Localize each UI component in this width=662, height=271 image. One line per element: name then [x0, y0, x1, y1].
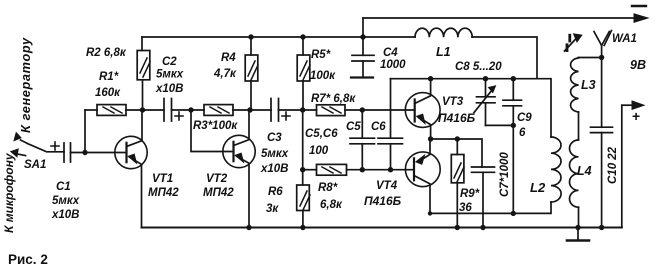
resistor R6: [297, 185, 310, 211]
ground bar under C4: [351, 76, 373, 78]
svg-text:VT4: VT4: [376, 180, 398, 192]
inductor L4: [570, 140, 579, 207]
svg-text:C8 5...20: C8 5...20: [455, 61, 502, 73]
svg-text:L1: L1: [436, 45, 451, 59]
inductor L2: [551, 137, 561, 202]
svg-text:C2: C2: [162, 56, 177, 68]
wire emitter line y139: [431, 139, 482, 167]
svg-text:L2: L2: [530, 180, 546, 195]
svg-text:R6: R6: [268, 186, 283, 198]
svg-text:МП42: МП42: [203, 187, 234, 199]
junction dots: [248, 34, 253, 39]
wire tank bottom line: [486, 125, 514, 213]
inductor L3: [571, 58, 579, 113]
svg-text:SA1: SA1: [24, 159, 46, 171]
capacitor C9: [512, 79, 514, 101]
wire mid supply rail left part: [142, 36, 415, 38]
wire antenna feed top: [579, 57, 602, 59]
svg-text:C7*1000: C7*1000: [499, 152, 511, 197]
capacitor C4: [362, 37, 364, 55]
svg-text:R3*100к: R3*100к: [193, 120, 238, 132]
svg-text:VT1: VT1: [152, 173, 173, 185]
capacitor C3: [271, 99, 279, 122]
svg-text:х10В: х10В: [155, 83, 184, 95]
svg-text:5мкх: 5мкх: [261, 148, 289, 160]
svg-text:П416Б: П416Б: [438, 111, 476, 125]
transistor VT1: [115, 136, 147, 168]
svg-text:R5*: R5*: [311, 49, 331, 61]
capacitor C7: [472, 166, 495, 168]
svg-text:5мкх: 5мкх: [52, 195, 80, 207]
wire R7 to VT3 base: [345, 109, 415, 111]
wire bias node vertical x302.7: [302, 110, 304, 185]
svg-text:C1: C1: [56, 181, 71, 193]
svg-text:х10В: х10В: [260, 163, 289, 175]
svg-text:R7* 6,8к: R7* 6,8к: [311, 93, 356, 105]
svg-text:6: 6: [519, 127, 526, 139]
svg-text:П416Б: П416Б: [364, 194, 402, 208]
svg-text:VT2: VT2: [206, 173, 228, 185]
capacitor C5: [361, 110, 363, 138]
wire R3 to C3: [233, 109, 271, 111]
capacitor C2: [164, 99, 172, 122]
wire C3 to R7: [279, 109, 317, 111]
capacitor C6: [390, 79, 392, 139]
svg-text:МП42: МП42: [148, 187, 179, 199]
svg-text:C6: C6: [371, 121, 386, 133]
wire mid rail right part: [472, 37, 537, 79]
svg-text:6,8к: 6,8к: [320, 199, 343, 211]
plus mark C2: [175, 112, 183, 120]
wire VT4 base line y169.7: [303, 169, 317, 171]
transistor VT2: [223, 135, 255, 167]
svg-text:L3: L3: [581, 78, 596, 92]
antenna WA1: [594, 32, 609, 46]
svg-text:R8*: R8*: [318, 182, 338, 194]
svg-text:VT3: VT3: [442, 96, 464, 108]
variable capacitor C8: [485, 79, 487, 97]
svg-text:R2 6,8к: R2 6,8к: [86, 47, 127, 59]
svg-text:R1*: R1*: [99, 71, 119, 83]
svg-text:х10В: х10В: [51, 209, 80, 221]
svg-text:5мкх: 5мкх: [156, 69, 184, 81]
svg-text:C5,C6: C5,C6: [305, 128, 338, 140]
svg-text:1000: 1000: [380, 59, 406, 71]
svg-text:9В: 9В: [630, 58, 646, 72]
wire VT2 base drop: [191, 110, 234, 152]
wire C2 to R3: [172, 109, 205, 111]
inductor L1: [415, 28, 472, 37]
svg-text:+: +: [632, 108, 640, 124]
wire VT4 collector line y213.4: [430, 202, 551, 213]
wire top supply line minus: [363, 17, 638, 19]
resistor R3: [204, 105, 233, 116]
resistor R9: [456, 139, 458, 155]
svg-text:100: 100: [309, 145, 329, 157]
telescopic antenna mark: [565, 37, 579, 52]
svg-text:C10 22: C10 22: [607, 146, 619, 184]
resistor R5: [302, 37, 304, 55]
svg-text:C3: C3: [267, 132, 282, 144]
svg-text:100к: 100к: [310, 70, 336, 82]
svg-text:4,7к: 4,7к: [213, 68, 237, 80]
wire plus output: [622, 104, 634, 106]
svg-text:Рис. 2: Рис. 2: [8, 252, 48, 267]
capacitor C10: [601, 58, 603, 128]
transistor VT3: [405, 93, 440, 128]
wire R8 to VT4 base: [347, 169, 415, 171]
wire L4 to ground rail: [578, 207, 580, 227]
wire L3-L4 link: [578, 112, 580, 140]
svg-text:R4: R4: [221, 52, 236, 64]
svg-text:К генератору: К генератору: [18, 37, 33, 133]
wire R1 left lead down to VT1 base node: [84, 110, 86, 153]
svg-text:L4: L4: [577, 164, 592, 178]
resistor R2: [141, 37, 143, 51]
svg-text:WA1: WA1: [612, 33, 637, 45]
resistor R1: [97, 105, 126, 116]
resistor R4: [250, 37, 252, 55]
capacitor C1: [64, 143, 71, 162]
svg-text:160к: 160к: [95, 87, 121, 99]
wire VT3 collector line y78.7: [391, 79, 552, 137]
minus sign label: [632, 5, 646, 7]
wire R1 to C2: [126, 109, 164, 111]
wire top line arrowhead: [634, 14, 648, 22]
svg-text:К микрофону: К микрофону: [2, 152, 16, 233]
switch SA1 arrows and lever: [21, 140, 28, 144]
resistor R7: [317, 105, 346, 116]
wire main signal line y110: [85, 109, 97, 111]
resistor R8: [317, 164, 347, 175]
svg-text:36: 36: [459, 202, 472, 214]
transistor VT4: [405, 152, 440, 187]
wire bottom ground rail: [142, 227, 622, 229]
svg-text:C4: C4: [383, 47, 398, 59]
ground symbol: [577, 228, 579, 241]
svg-text:C5: C5: [346, 121, 361, 133]
svg-text:C9: C9: [517, 112, 532, 124]
wire vertical from top line to mid rail: [362, 18, 364, 37]
svg-text:R9*: R9*: [460, 188, 480, 200]
plus mark C3: [282, 112, 290, 120]
plus mark C1: [51, 142, 59, 150]
wire C1 to VT1 base: [71, 152, 127, 154]
svg-text:3к: 3к: [266, 203, 279, 215]
